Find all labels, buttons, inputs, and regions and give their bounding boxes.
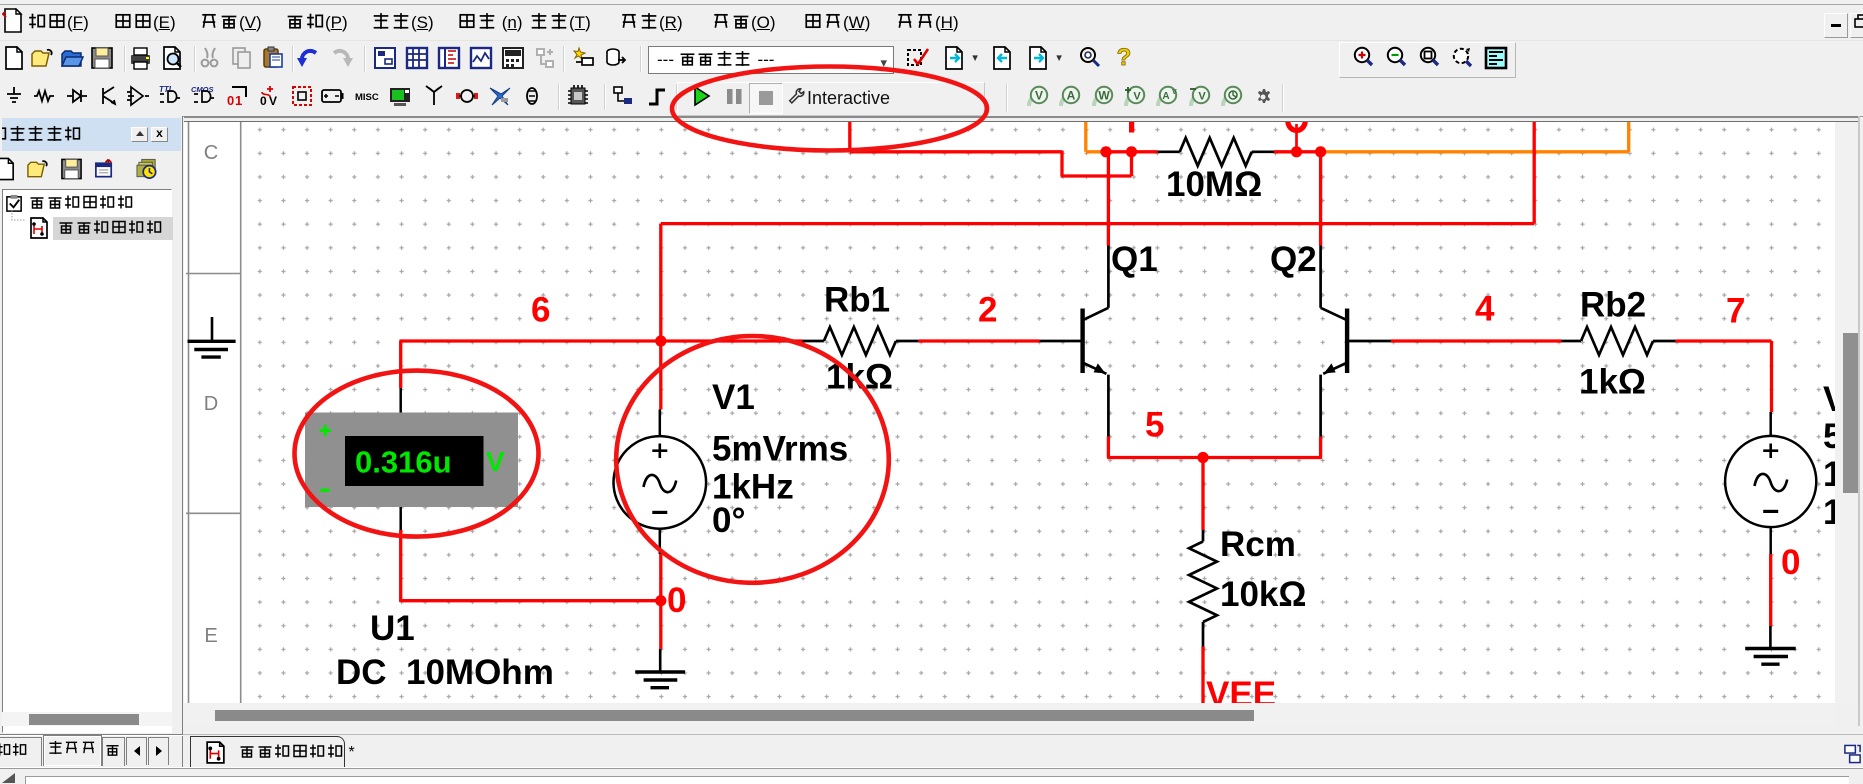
svg-text:U1: U1 xyxy=(370,609,415,648)
svg-text:6: 6 xyxy=(531,291,550,330)
Q1 label xyxy=(1111,240,1158,279)
svg-text:V1: V1 xyxy=(712,378,755,417)
resistor Rb1 1k xyxy=(802,327,918,355)
svg-text:C: C xyxy=(204,142,218,164)
row label C xyxy=(204,142,218,164)
svg-text:E: E xyxy=(204,625,217,647)
sheet border frame column xyxy=(186,122,241,703)
source V1 AC symbol xyxy=(614,436,707,529)
wire right of 10M resistor xyxy=(1274,150,1321,153)
cut wire stub xyxy=(1129,122,1134,133)
row label D xyxy=(204,393,218,415)
svg-text:10MΩ: 10MΩ xyxy=(1166,165,1262,204)
wire emitter bus node 5 xyxy=(1107,456,1322,459)
row label E xyxy=(204,625,217,647)
junction node 0 xyxy=(655,595,666,606)
multimeter minus terminal mark xyxy=(321,489,330,492)
node label 6 xyxy=(531,291,550,330)
Rb2 label xyxy=(1580,286,1646,325)
orange wire down to node junction xyxy=(1086,122,1106,152)
svg-text:V: V xyxy=(486,446,505,477)
wire long riser x=1534 xyxy=(1533,122,1536,224)
resistor Rb2 1k xyxy=(1562,327,1676,355)
wire node 6 horizontal xyxy=(399,339,802,342)
multimeter V unit xyxy=(486,446,505,477)
node label 2 xyxy=(978,291,997,330)
node label 0 xyxy=(667,581,686,620)
junction dots on top wire xyxy=(1100,146,1326,157)
wire between junctions to 10M resistor xyxy=(1106,150,1158,153)
junction node 5 xyxy=(1197,452,1208,463)
wire node5 down to Rcm xyxy=(1201,458,1204,531)
wire node 7 to V2 xyxy=(1676,341,1772,412)
svg-text:DC 10MOhm: DC 10MOhm xyxy=(336,653,554,692)
wire to ground GND1 xyxy=(659,601,662,649)
wire Rcm to VEE rail xyxy=(1201,647,1204,704)
annotation ellipse around multimeter xyxy=(295,371,539,537)
annotation ellipse around V1 xyxy=(616,336,889,583)
wire V1 minus lead xyxy=(660,529,661,601)
wire V2 minus lead xyxy=(1769,527,1772,626)
ground GND2 xyxy=(1745,626,1796,664)
svg-text:4: 4 xyxy=(1475,290,1495,329)
wire V1 plus lead xyxy=(660,341,661,436)
ground GND1 xyxy=(635,649,685,688)
svg-text:7: 7 xyxy=(1726,292,1745,331)
resistor R1 10MOhm xyxy=(1158,138,1274,166)
svg-text:Rcm: Rcm xyxy=(1220,525,1296,564)
svg-text:V: V xyxy=(1172,89,1177,96)
probe hook symbol xyxy=(1288,119,1305,152)
svg-text:1: 1 xyxy=(235,93,242,108)
U1 label xyxy=(370,609,415,648)
svg-text:0°: 0° xyxy=(712,501,745,540)
Rcm label xyxy=(1220,525,1296,564)
svg-text:1kΩ: 1kΩ xyxy=(1579,363,1646,402)
node label 4 xyxy=(1475,290,1495,329)
svg-text:Q2: Q2 xyxy=(1270,240,1317,279)
wire Q1 emitter drop xyxy=(1107,437,1110,458)
svg-text:TTL: TTL xyxy=(159,85,174,94)
multimeter reading 0.316u xyxy=(355,445,452,480)
svg-text:Q1: Q1 xyxy=(1111,240,1158,279)
Q2 label xyxy=(1270,240,1317,279)
source V2 AC symbol xyxy=(1725,436,1816,527)
svg-text:180°: 180° xyxy=(1823,493,1835,532)
orange wire to right riser xyxy=(1321,122,1629,152)
Rb1 label xyxy=(824,281,890,320)
wire node 2 xyxy=(918,339,1039,342)
annotation ellipse around Interactive xyxy=(672,67,987,151)
svg-text:0: 0 xyxy=(667,581,686,620)
svg-text:Rb2: Rb2 xyxy=(1580,286,1646,325)
svg-text:W: W xyxy=(1098,89,1110,103)
svg-text:0.316u: 0.316u xyxy=(355,445,452,480)
wire top horizontal node 6 feedback xyxy=(850,150,1062,153)
Rb2 value 1k xyxy=(1579,363,1646,402)
wire riser node6 to top loop xyxy=(659,224,662,341)
multimeter U1 body xyxy=(305,413,518,508)
svg-text:A: A xyxy=(1163,91,1170,102)
node label 5 xyxy=(1145,406,1164,445)
svg-text:?: ? xyxy=(1117,46,1132,70)
svg-text:5: 5 xyxy=(1145,406,1164,445)
value label 10MOhm xyxy=(1166,165,1262,204)
transistor Q2 (mirrored) xyxy=(1321,246,1391,437)
svg-text:VEE: VEE xyxy=(1206,675,1276,703)
svg-text:V: V xyxy=(1133,91,1141,103)
svg-text:V: V xyxy=(1198,91,1206,103)
svg-text:2: 2 xyxy=(978,291,997,330)
svg-text:1kΩ: 1kΩ xyxy=(826,358,893,397)
node label 7 xyxy=(1726,292,1745,331)
wire node 0 horizontal from multimeter xyxy=(401,599,661,602)
wire multimeter plus lead xyxy=(399,341,402,413)
wire Q2 emitter drop xyxy=(1319,437,1322,458)
U1 mode label DC 10MOhm xyxy=(336,653,554,692)
svg-text:V2: V2 xyxy=(1823,380,1835,419)
wire from toolbar down at x=850 xyxy=(848,122,851,152)
svg-text:A: A xyxy=(1067,89,1076,103)
net label VEE xyxy=(1206,675,1276,714)
svg-text:0: 0 xyxy=(227,93,234,108)
svg-text:5mVrms: 5mVrms xyxy=(1823,417,1835,456)
wire V2 plus lead xyxy=(1769,412,1772,436)
node label 0 at V2 xyxy=(1781,543,1800,582)
wire long horizontal y=224 xyxy=(661,222,1534,225)
svg-text:Rb1: Rb1 xyxy=(824,281,890,320)
Rcm value 10k xyxy=(1220,575,1306,614)
ground symbol on border column xyxy=(188,317,236,357)
svg-text:MISC: MISC xyxy=(355,92,379,103)
multimeter plus terminal mark xyxy=(320,425,332,437)
wire step down segment xyxy=(1061,151,1132,177)
svg-text:1kHz: 1kHz xyxy=(1823,455,1835,494)
Rb1 value 1k xyxy=(826,358,893,397)
svg-text:D: D xyxy=(204,393,218,415)
V2 labels clipped at edge xyxy=(1823,380,1863,532)
svg-text:10kΩ: 10kΩ xyxy=(1220,575,1306,614)
svg-text:0: 0 xyxy=(1781,543,1800,582)
wire node 4 xyxy=(1391,339,1562,342)
resistor Rcm 10k vertical xyxy=(1189,530,1217,647)
wire Q2 collector riser xyxy=(1319,152,1322,246)
wire Q1 collector riser xyxy=(1107,152,1110,246)
junction node 6 xyxy=(655,335,666,346)
svg-text:0: 0 xyxy=(260,94,267,108)
V1 labels: V1 5mVrms 1kHz 0deg xyxy=(712,378,848,540)
svg-text:V: V xyxy=(1035,89,1043,103)
wire multimeter minus lead xyxy=(399,507,402,602)
transistor Q1 xyxy=(1040,246,1109,437)
svg-text:5mVrms: 5mVrms xyxy=(712,430,848,469)
